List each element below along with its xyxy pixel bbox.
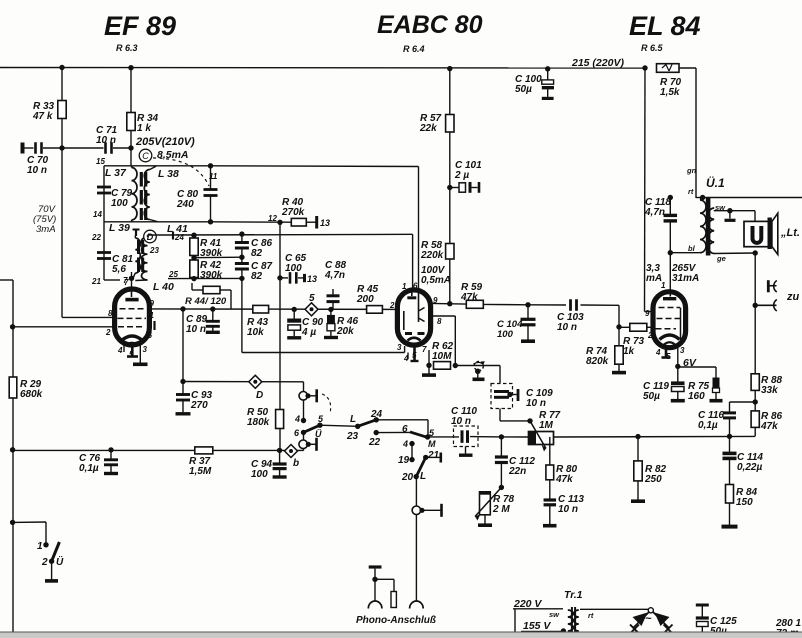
wire C80 upper [210, 166, 212, 190]
node C86-C87 [239, 255, 244, 260]
tube heading EF89 [104, 11, 176, 41]
svg-text:Tr.1: Tr.1 [564, 589, 583, 601]
node AF line left [10, 447, 15, 452]
label C90 4u [301, 317, 324, 338]
label Tr.1 [564, 589, 583, 601]
inductor L39 [135, 238, 140, 273]
wire IF2 can bottom stub [104, 279, 120, 281]
switch dot 1 [43, 542, 48, 547]
svg-text:Phono-Anschluß: Phono-Anschluß [356, 615, 436, 626]
label 4 M [402, 439, 408, 449]
svg-text:250: 250 [644, 474, 662, 485]
wire cathode to R75 [678, 366, 716, 368]
node D line left [180, 379, 185, 384]
terminal 13 [315, 216, 318, 229]
loudspeaker Lt [744, 213, 778, 254]
wire R80-C113 [549, 480, 551, 500]
label Phono-Anschluss [356, 615, 436, 626]
label R58 220k [420, 240, 444, 261]
pin 2 EL84 [647, 331, 653, 340]
svg-text:zu: zu [786, 291, 800, 303]
ground test point [473, 377, 485, 381]
label L40 [153, 281, 174, 293]
ground C93 [176, 412, 191, 415]
switch dot 4M [409, 441, 414, 446]
svg-text:12: 12 [268, 214, 277, 223]
wire EL84 plate lead [669, 253, 671, 294]
resistor R88 [751, 374, 759, 391]
svg-text:rt: rt [688, 187, 694, 196]
wire C76 lower lead [110, 465, 112, 472]
wire phono branch down [393, 579, 395, 591]
node R62 left [426, 363, 431, 368]
wire 155V tap [521, 631, 563, 633]
pin 1 EL84 [661, 281, 666, 290]
node R50 bottom [277, 448, 282, 453]
label R41 390k [200, 238, 223, 259]
label R70 1.5k [660, 77, 682, 98]
svg-text:10 n: 10 n [96, 135, 116, 146]
resistor R58 [446, 244, 454, 260]
wire EF89 pin2 line [13, 326, 115, 328]
wire R33 column upper [61, 68, 63, 101]
resistor R42 [190, 260, 198, 278]
pin 2 EABC80 [389, 301, 395, 310]
svg-text:L: L [350, 414, 356, 425]
label L38 [158, 168, 179, 180]
svg-text:270k: 270k [281, 207, 305, 218]
label R74 820k [586, 346, 609, 367]
wire C94 lead [279, 450, 281, 464]
pin 3 EABC [397, 343, 402, 352]
wire AF bus [13, 449, 304, 451]
capacitor C109 shield box [491, 384, 513, 409]
node C90 tap [292, 307, 297, 312]
svg-text:22n: 22n [508, 466, 526, 477]
svg-text:bl: bl [688, 244, 696, 253]
vacuum tube EABC80 (triple diode-triode) [397, 290, 430, 345]
ground C94 [273, 475, 287, 478]
phono jack right [410, 601, 424, 609]
pin 4 EL84 [655, 348, 661, 357]
label 6 upper [294, 428, 300, 438]
label R42 390k [200, 260, 223, 281]
svg-text:0,5mA: 0,5mA [421, 275, 451, 286]
resistor R80 [546, 465, 554, 480]
pin 3 EL84 [680, 346, 685, 355]
label L39 [109, 222, 130, 234]
svg-text:6: 6 [148, 331, 153, 340]
wire detector line to R40 [211, 221, 292, 223]
wire 20 down [415, 477, 417, 506]
wire R75 lower lead [715, 393, 717, 400]
svg-text:L 38: L 38 [158, 168, 179, 180]
svg-text:180k: 180k [247, 417, 270, 428]
svg-text:ge: ge [716, 254, 726, 263]
capacitor C76 [104, 460, 118, 465]
pin 6 label [148, 331, 153, 340]
node IF1 bottom-right [208, 219, 213, 224]
wire EABC80 pin4 stub [407, 353, 409, 360]
label C113 10n [558, 494, 584, 515]
inductor L37 [132, 168, 138, 221]
EABC80 pin5 lead [413, 345, 416, 360]
wire R57 column upper [449, 69, 451, 115]
wire IF1 bottom [104, 221, 211, 223]
node grid line [10, 324, 15, 329]
svg-text:21: 21 [91, 277, 101, 286]
svg-text:82: 82 [251, 248, 263, 259]
wire C114-R84 [729, 458, 731, 484]
wire phono plug lead [374, 569, 376, 601]
label AC tilde [645, 613, 652, 625]
wire speaker bottom down [754, 253, 756, 305]
wire 21 lead [426, 456, 440, 458]
svg-text:EF 89: EF 89 [104, 11, 176, 41]
wire C118 lower lead [669, 221, 671, 253]
svg-text:1k: 1k [623, 346, 635, 357]
dashed arc decoration [153, 158, 209, 186]
label sw [715, 203, 726, 212]
node switch feed [10, 520, 15, 525]
label 8.5mA [157, 149, 189, 161]
switch contact phono [412, 504, 441, 517]
wire switch feed down [45, 522, 47, 545]
svg-text:50µ: 50µ [643, 391, 660, 402]
label C101 2u [454, 160, 482, 181]
svg-text:0,22µ: 0,22µ [737, 462, 762, 473]
wire pin8 down [454, 316, 456, 366]
label 5 upper [318, 414, 324, 424]
svg-text:4 µ: 4 µ [301, 327, 316, 338]
wire C90 lead [293, 309, 295, 318]
wire EF89 pin4 stub [123, 344, 125, 352]
svg-text:220k: 220k [420, 250, 444, 261]
inductor L38 [144, 170, 150, 220]
svg-text:8: 8 [437, 317, 442, 326]
wire 6 to lower contact [303, 432, 305, 440]
wire R44 right lead [220, 289, 231, 291]
node rail-R33 [59, 65, 64, 70]
label C79 100 [111, 188, 133, 209]
pin 9 label [150, 299, 155, 308]
resistor R59 [466, 300, 483, 308]
vacuum tube EL84 (output pentode) [653, 292, 686, 348]
wire C93 upper lead [182, 382, 184, 395]
svg-text:R 6.3: R 6.3 [116, 43, 138, 53]
wire R33 column lower [61, 119, 63, 318]
ground C76 [104, 472, 118, 475]
inductor L41 [142, 237, 148, 280]
wire C94 lower lead [279, 469, 281, 476]
svg-text:R 6.5: R 6.5 [641, 43, 664, 53]
svg-text:C: C [142, 151, 149, 161]
ground U switch [45, 579, 58, 583]
test point contact [474, 361, 485, 377]
capacitor C100 [542, 80, 554, 97]
label C70 10n [27, 155, 49, 176]
wire mains box left [514, 610, 516, 638]
ground C90 [287, 336, 301, 339]
svg-text:6: 6 [402, 424, 408, 435]
wire C110 out [470, 436, 501, 438]
IF1 core [141, 172, 145, 220]
ground R84 [722, 525, 738, 529]
label R 6.5 [641, 43, 664, 53]
capacitor C90 [287, 321, 301, 337]
switch dot 20 [414, 474, 419, 479]
svg-text:820k: 820k [586, 356, 609, 367]
wire C112 lower lead [500, 463, 502, 488]
pin 2 label [105, 328, 111, 337]
svg-text:6: 6 [294, 428, 300, 438]
svg-text:215 (220V): 215 (220V) [571, 57, 624, 69]
wire primary bottom [670, 252, 700, 254]
pin 7 EABC [422, 345, 427, 354]
wire speaker top lead [754, 211, 756, 222]
label 6 M [402, 424, 408, 435]
svg-text:3mA: 3mA [36, 224, 56, 235]
label 23 [346, 431, 359, 442]
ground C89 [206, 331, 220, 334]
capacitor C81 [97, 253, 111, 259]
node rail-R34 [128, 65, 133, 70]
capacitor C70 [36, 142, 42, 154]
label gn [686, 166, 697, 175]
label R59 47k [460, 282, 483, 303]
resistor R57 [446, 115, 454, 133]
transformer Tr1 secondary [574, 610, 579, 638]
wire C112 lead [500, 437, 502, 457]
ground R62 [422, 373, 436, 377]
wire R58 lower [449, 259, 451, 304]
wire R84 lower lead [729, 503, 731, 525]
pin 1 label [150, 311, 155, 320]
node C65 tap [277, 275, 282, 280]
node pin7 junction [129, 276, 134, 281]
ground R75 [710, 399, 723, 403]
wire L37 bottom stub [131, 220, 133, 222]
wire C89 lower lead [212, 326, 214, 331]
svg-text:31mA: 31mA [672, 273, 699, 284]
svg-text:24: 24 [370, 409, 383, 420]
label C114 0.22u [737, 452, 763, 473]
label sw mains [549, 610, 560, 619]
wire 24 corner down [427, 420, 429, 437]
label 5 M [429, 428, 435, 438]
svg-text:1,5M: 1,5M [189, 466, 212, 477]
label 205V(210V) [135, 136, 195, 148]
label R46 20k [336, 316, 359, 337]
label C104 100 [497, 319, 523, 340]
svg-text:4: 4 [655, 348, 661, 357]
svg-text:47k: 47k [460, 292, 478, 303]
svg-text:3: 3 [397, 343, 402, 352]
capacitor C110 shield box [454, 426, 479, 447]
svg-text:EL 84: EL 84 [629, 11, 701, 41]
label R84 150 [736, 487, 758, 508]
label 20 [401, 472, 414, 483]
wire C103 to corner [581, 304, 620, 306]
wire C109 lower lead [499, 409, 501, 421]
node C70-C71 junction [59, 145, 64, 150]
wire mains box top [541, 608, 563, 610]
wire EL84 pin3 lead [677, 347, 679, 366]
node speaker bottom [753, 250, 758, 255]
capacitor C104 [521, 319, 536, 325]
ground R82 [631, 499, 645, 503]
label 4 upper [294, 414, 300, 424]
svg-text:2 M: 2 M [492, 504, 510, 515]
svg-text:15: 15 [96, 157, 105, 166]
svg-text:sw: sw [549, 610, 560, 619]
capacitor C86 [235, 243, 249, 249]
wire L37 top stub [131, 166, 133, 168]
resistor R73 [630, 323, 647, 331]
svg-text:L 40: L 40 [153, 281, 174, 293]
ground C104 [521, 339, 535, 343]
label C109 10n [526, 388, 553, 409]
pin 11 [209, 172, 218, 181]
svg-text:b: b [293, 458, 299, 469]
wire C65 to terminal [298, 277, 303, 279]
resistor R45 [367, 306, 383, 314]
svg-text:D: D [256, 390, 263, 401]
svg-text:160: 160 [688, 391, 705, 402]
svg-text:2: 2 [105, 328, 111, 337]
wire C87 bottom column [241, 269, 243, 278]
ground EF89 cathode [133, 362, 148, 366]
wire IF1 top [104, 165, 211, 167]
label M [428, 439, 436, 449]
svg-text:1,5k: 1,5k [660, 87, 680, 98]
pin 4 label [117, 346, 123, 355]
wire B+ line right [703, 197, 802, 199]
label R 6.3 [116, 43, 138, 53]
svg-text:50µ: 50µ [515, 84, 532, 95]
node C89 tap [210, 306, 215, 311]
label R88 33k [761, 375, 783, 396]
svg-text:7: 7 [124, 278, 129, 287]
pin 25 [168, 270, 178, 279]
switch lever M [410, 432, 428, 438]
svg-text:0,1µ: 0,1µ [698, 420, 718, 431]
switch lever 1-2 [52, 542, 60, 561]
IF2 core [139, 240, 143, 272]
pin 5 EABC [412, 351, 417, 360]
label 155V [523, 620, 551, 632]
label R50 180k [247, 407, 270, 428]
wire R74 lower [618, 364, 620, 371]
switch lever U [304, 425, 320, 432]
wire cathode column [241, 278, 243, 352]
pin 6 tick [153, 321, 155, 330]
label C93 270 [190, 390, 213, 411]
svg-text:4,7n: 4,7n [644, 207, 665, 218]
resistor R33 [58, 101, 66, 119]
terminal 21 [439, 453, 442, 463]
svg-text:47k: 47k [760, 421, 778, 432]
transformer Ue1 core [706, 197, 711, 256]
wire C80 lower [210, 196, 212, 222]
ground R78 [478, 523, 492, 527]
wire L38 top stub [150, 166, 156, 169]
wire C86 top stub [241, 234, 243, 242]
svg-text:L: L [420, 471, 426, 482]
switch dot 5 [317, 423, 322, 428]
capacitor C93 [176, 395, 190, 401]
node C118 bottom [668, 250, 673, 255]
wire C93 lower lead [182, 400, 184, 412]
EL84 pin5 lead [665, 346, 668, 357]
label L41 [167, 223, 188, 235]
node R77 wiper [527, 418, 532, 423]
label R29 680k [20, 379, 43, 400]
EF89 pin5 lead [131, 345, 134, 356]
svg-text:L 39: L 39 [109, 222, 130, 234]
label D [256, 390, 263, 401]
svg-text:1: 1 [402, 282, 407, 291]
label 215 (220V) [571, 57, 624, 69]
label R75 160 [688, 381, 710, 402]
resistor R37 [195, 447, 213, 454]
terminal label 13 [320, 218, 330, 228]
node primary top [700, 195, 705, 200]
label C112 22n [508, 456, 535, 477]
wire grid line B start [148, 234, 174, 236]
capacitor C89 [206, 321, 220, 326]
svg-text:1: 1 [37, 541, 43, 552]
svg-text:100: 100 [251, 469, 268, 480]
potentiometer R78 [475, 487, 501, 520]
wire R59 to C104 [483, 303, 528, 305]
wire R42 bottom [193, 278, 195, 279]
pin 7 label [124, 278, 129, 287]
wire C65 lead [280, 277, 288, 279]
label R78 2M [492, 494, 515, 515]
svg-text:19: 19 [398, 455, 410, 466]
label R73 1k [623, 336, 645, 357]
svg-text:gn: gn [686, 166, 697, 175]
svg-text:33k: 33k [761, 385, 778, 396]
switch dot 4 [301, 418, 306, 423]
wire C100 lead [547, 69, 549, 80]
wire C114 upper lead [729, 436, 731, 452]
capacitor C112 [495, 457, 508, 463]
label U [315, 429, 322, 439]
wire ratio-det link [194, 256, 242, 259]
switch dot 2 [49, 559, 54, 564]
wire R62 to C109 [455, 365, 500, 367]
label L phono [420, 471, 426, 482]
wire main IF line [149, 308, 398, 311]
wire R82 lower lead [637, 481, 639, 500]
svg-text:6: 6 [413, 282, 418, 291]
svg-text:rt: rt [588, 611, 594, 620]
svg-text:„Lt.: „Lt. [780, 227, 800, 239]
wire C89 lead [212, 309, 214, 321]
label 280/72 [775, 618, 801, 638]
switch dot 19 [409, 457, 414, 462]
svg-text:R 6.4: R 6.4 [403, 44, 425, 54]
label C103 10n [557, 312, 584, 333]
dashed arc switch [322, 394, 331, 414]
capacitor C79 [97, 187, 111, 193]
label R34 1k [137, 113, 159, 134]
svg-text:2: 2 [41, 557, 48, 568]
wire L39 top stub [134, 236, 136, 239]
capacitor C94 [273, 464, 287, 469]
